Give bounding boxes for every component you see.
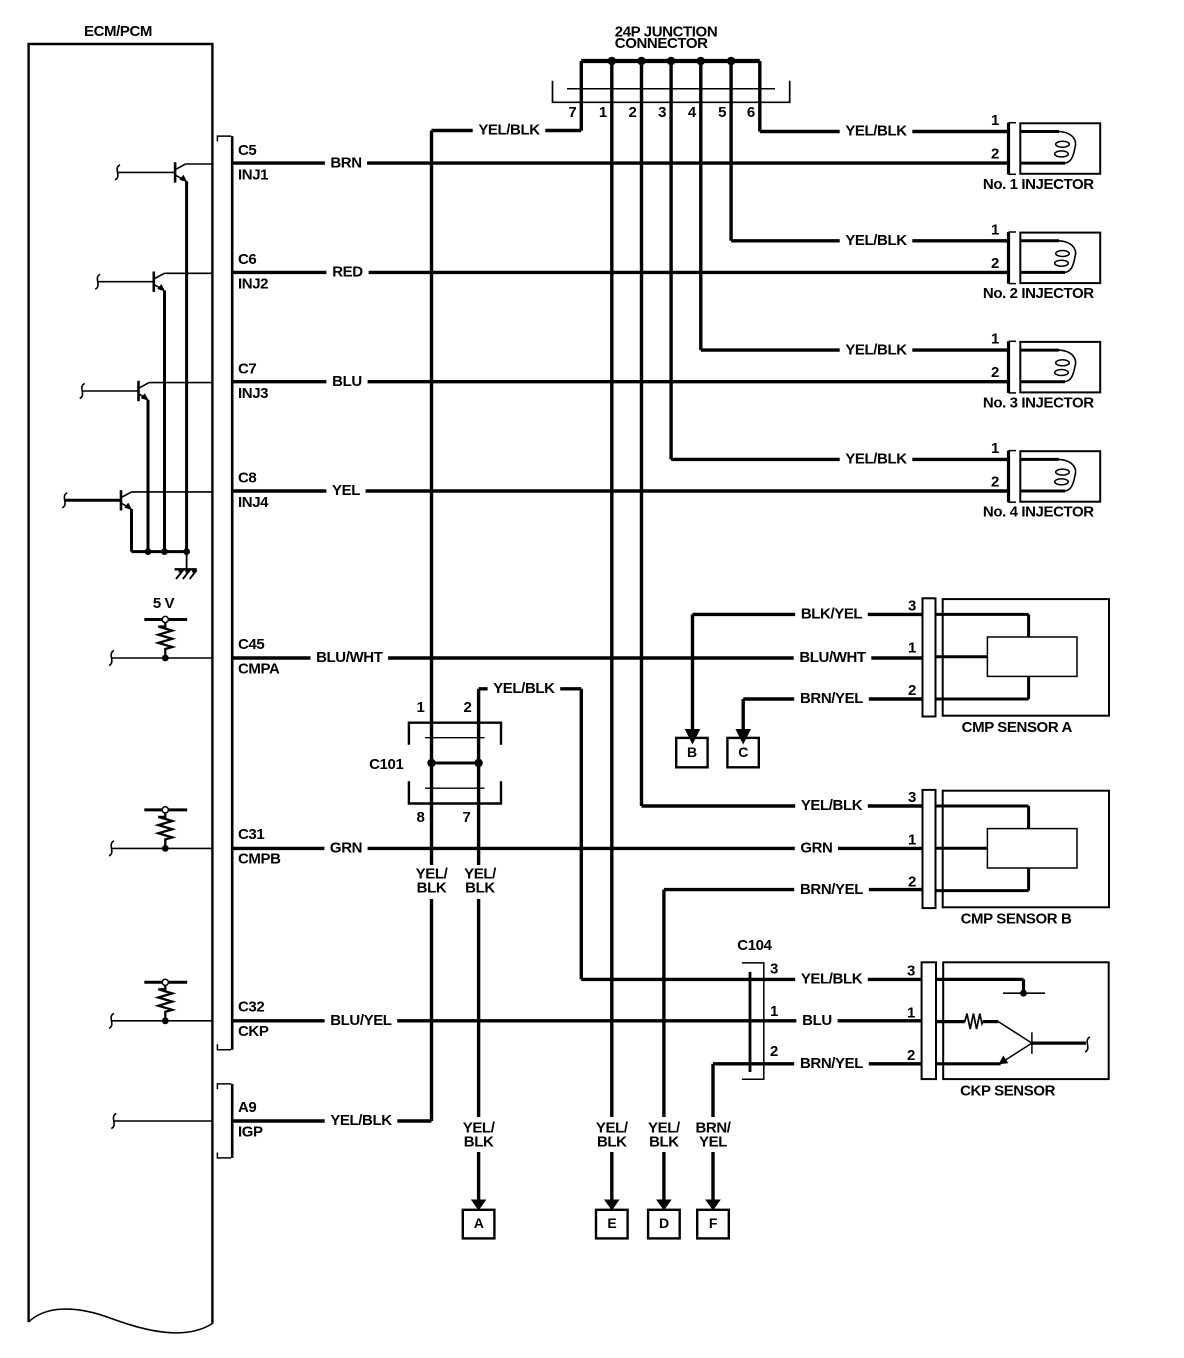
- svg-text:BRN: BRN: [330, 154, 361, 171]
- injector 2 body box: [1020, 233, 1100, 284]
- wire pin5 drop: [729, 61, 732, 241]
- 24P junction connector title: [615, 24, 717, 53]
- injector 1 connector bracket: [1009, 123, 1017, 175]
- svg-text:2: 2: [991, 146, 999, 163]
- wire BRN/YEL drop to connector C: [742, 699, 745, 730]
- 24P junction connector bus bar: [581, 59, 760, 63]
- svg-text:YEL: YEL: [332, 482, 360, 499]
- svg-text:5: 5: [718, 104, 726, 121]
- svg-text:2: 2: [464, 699, 472, 716]
- CKP sensor body box: [943, 962, 1108, 1079]
- wire BLU to injector 3 pin2: [231, 380, 1009, 383]
- connector C box: [727, 738, 758, 767]
- svg-text:1: 1: [908, 831, 916, 848]
- svg-text:3: 3: [770, 960, 778, 977]
- connector E box: [596, 1210, 628, 1239]
- wire pin3 drop: [669, 61, 672, 459]
- resistor pull-up R-CMPA 5V: [144, 595, 187, 661]
- svg-text:A: A: [474, 1215, 484, 1231]
- wire label above connector D: [644, 1119, 684, 1153]
- wire YEL/BLK pin2-drop to CMP sensor B pin3: [642, 804, 923, 807]
- svg-text:2: 2: [908, 682, 916, 699]
- svg-text:2: 2: [907, 1047, 915, 1064]
- svg-text:ECM/PCM: ECM/PCM: [84, 23, 152, 40]
- junction dot bus pin 4: [697, 57, 706, 66]
- junction dot bus/Q1: [183, 548, 190, 555]
- wire YEL/BLK vertical to C104 pin3: [580, 689, 583, 980]
- wire internal A9 with break tick: [111, 1114, 212, 1129]
- svg-text:IGP: IGP: [238, 1123, 263, 1140]
- wire C101 pin2/7 through-connector: [477, 723, 480, 804]
- connector D box: [648, 1210, 680, 1239]
- node C32/CKP pin labels: [238, 999, 269, 1041]
- junction dot bus/Q3: [145, 548, 152, 555]
- wire YEL/BLK vertical to C101 pin1: [430, 131, 433, 764]
- svg-text:CMP SENSOR A: CMP SENSOR A: [962, 719, 1073, 736]
- node C7/INJ3 pin labels: [238, 360, 268, 402]
- connector D arrow: [662, 1152, 665, 1201]
- wire internal C45 with break tick: [109, 651, 212, 666]
- svg-text:7: 7: [463, 809, 471, 826]
- CMP SENSOR B internal element: [936, 806, 1078, 891]
- svg-text:YEL/BLK: YEL/BLK: [801, 797, 863, 814]
- svg-text:C8: C8: [238, 470, 256, 487]
- svg-text:BLK/YEL: BLK/YEL: [801, 606, 863, 623]
- wire BRN/YEL to CMP sensor A pin2: [743, 697, 922, 700]
- svg-text:2: 2: [908, 874, 916, 891]
- transistor Q1 (INJ1 driver): [115, 162, 212, 182]
- wire pin6 drop: [758, 61, 761, 132]
- svg-text:2: 2: [991, 255, 999, 272]
- wire label above connector E: [592, 1119, 632, 1153]
- node C5/INJ1 pin labels: [238, 142, 268, 184]
- injector 2 pin numbers: [991, 221, 999, 272]
- junction dot bus pin 3: [667, 57, 676, 66]
- CMP SENSOR A pin numbers: [908, 597, 916, 699]
- wire YEL/BLK feed to injector 4: [671, 458, 1008, 461]
- injector 4 body box: [1020, 451, 1100, 502]
- svg-text:6: 6: [747, 104, 755, 121]
- node C31/CMPB pin labels: [238, 826, 281, 868]
- wire Q1 emitter to ground bus: [185, 181, 188, 551]
- svg-text:No. 3 INJECTOR: No. 3 INJECTOR: [983, 394, 1094, 411]
- ECM/PCM module box: [29, 23, 213, 1333]
- svg-text:1: 1: [991, 112, 999, 129]
- svg-text:7: 7: [568, 104, 576, 121]
- svg-text:8: 8: [417, 809, 425, 826]
- 24P junction connector body: [553, 81, 790, 103]
- svg-text:1: 1: [599, 104, 607, 121]
- svg-text:C45: C45: [238, 636, 264, 653]
- svg-text:No. 1 INJECTOR: No. 1 INJECTOR: [983, 176, 1094, 193]
- transistor Q4 (INJ4 driver): [62, 490, 212, 510]
- injector 1 coil: [1020, 132, 1075, 164]
- svg-text:CKP SENSOR: CKP SENSOR: [960, 1083, 1055, 1100]
- C101 internal link wire: [432, 762, 479, 765]
- svg-text:3: 3: [658, 104, 666, 121]
- svg-text:1: 1: [770, 1003, 778, 1020]
- svg-text:1: 1: [991, 221, 999, 238]
- wire BLU/YEL C32 to CKP sensor pin1: [231, 1019, 922, 1022]
- svg-text:YEL/BLK: YEL/BLK: [478, 122, 540, 139]
- ground symbol: [175, 552, 197, 579]
- svg-text:2: 2: [991, 474, 999, 491]
- transistor Q3 (INJ3 driver): [80, 381, 213, 401]
- svg-text:YEL/BLK: YEL/BLK: [801, 971, 863, 988]
- svg-text:BLK: BLK: [649, 1134, 679, 1151]
- wire BLK/YEL drop to connector B: [691, 614, 694, 730]
- junction dot bus pin 1: [608, 57, 617, 66]
- svg-text:YEL/BLK: YEL/BLK: [845, 451, 907, 468]
- wire Q2 emitter to ground bus: [163, 291, 166, 552]
- junction dot C101 pin1/8: [427, 759, 435, 767]
- svg-text:3: 3: [908, 597, 916, 614]
- svg-text:INJ2: INJ2: [238, 276, 268, 293]
- wire BLK/YEL to CMP sensor A pin3: [693, 613, 923, 616]
- connector C arrow: [735, 729, 751, 745]
- svg-text:C7: C7: [238, 360, 256, 377]
- connector A arrow: [477, 1152, 480, 1201]
- CKP sensor internal pickup: [936, 979, 1090, 1064]
- wire label above connector F: [692, 1119, 735, 1153]
- wire pin4 drop: [699, 61, 702, 350]
- svg-text:A9: A9: [238, 1099, 256, 1116]
- CMP SENSOR B connector bracket: [923, 790, 936, 908]
- connector E arrow: [610, 1152, 613, 1201]
- svg-text:CMPA: CMPA: [238, 660, 280, 677]
- svg-text:2: 2: [770, 1043, 778, 1060]
- junction dot bus/Q2: [161, 548, 168, 555]
- wire pin2 drop to CMP sensor B: [640, 61, 643, 806]
- svg-text:C: C: [738, 744, 748, 760]
- svg-text:1: 1: [991, 331, 999, 348]
- injector 3 connector bracket: [1009, 341, 1017, 393]
- connector B box: [676, 738, 707, 767]
- wire C101 pin8 down to A9 row: [430, 763, 433, 1121]
- wire BLU/WHT C45 to CMP sensor A pin1: [231, 656, 922, 659]
- injector 2 coil: [1020, 241, 1075, 273]
- wire YEL/BLK A9 IGP row: [231, 1119, 432, 1122]
- CMP SENSOR B pin numbers: [908, 789, 916, 891]
- wire Q4 emitter to ground bus: [130, 509, 133, 551]
- connector F arrow: [711, 1152, 714, 1201]
- resistor pull-up R-CMPB: [144, 807, 187, 852]
- wire BRN to injector 1 pin2: [231, 161, 1009, 164]
- svg-text:BLK: BLK: [417, 880, 447, 897]
- resistor pull-up R-CKP: [144, 979, 187, 1024]
- svg-text:BLU/WHT: BLU/WHT: [799, 649, 866, 666]
- svg-text:YEL/BLK: YEL/BLK: [330, 1112, 392, 1129]
- svg-text:BLU: BLU: [332, 373, 362, 390]
- wire YEL/BLK feed to injector 3: [701, 348, 1009, 351]
- wire BRN/YEL CMP sensor B pin2 to connector D: [664, 888, 922, 891]
- svg-text:1: 1: [908, 640, 916, 657]
- svg-text:INJ1: INJ1: [238, 166, 268, 183]
- svg-text:YEL/BLK: YEL/BLK: [845, 232, 907, 249]
- wire YEL/BLK C104 pin3 to CKP sensor pin3: [581, 978, 922, 981]
- svg-text:1: 1: [417, 699, 425, 716]
- CKP sensor pin numbers: [907, 962, 915, 1063]
- connector C101 body: [409, 723, 501, 804]
- ECM main connector strip: [217, 136, 232, 1050]
- svg-text:BLK: BLK: [465, 880, 495, 897]
- svg-text:No. 4 INJECTOR: No. 4 INJECTOR: [983, 504, 1094, 521]
- svg-text:D: D: [659, 1215, 669, 1231]
- ECM A9 connector strip: [217, 1084, 232, 1158]
- svg-text:YEL: YEL: [699, 1134, 727, 1151]
- svg-text:1: 1: [907, 1005, 915, 1022]
- wire label above connector A: [459, 1119, 499, 1153]
- CKP sensor connector bracket: [922, 962, 936, 1079]
- svg-text:4: 4: [688, 104, 697, 121]
- wire drop to connector F: [711, 1064, 714, 1117]
- CMP SENSOR B body box: [943, 791, 1109, 908]
- wire pin1 drop to connector E: [610, 61, 613, 1117]
- svg-text:B: B: [687, 744, 697, 760]
- svg-text:BRN/YEL: BRN/YEL: [800, 1055, 863, 1072]
- CMP SENSOR A internal element: [936, 614, 1078, 699]
- svg-text:E: E: [607, 1215, 616, 1231]
- connector A box: [463, 1210, 495, 1239]
- injector 3 pin numbers: [991, 331, 999, 382]
- svg-text:5 V: 5 V: [153, 595, 175, 612]
- svg-text:YEL/BLK: YEL/BLK: [845, 123, 907, 140]
- svg-text:No. 2 INJECTOR: No. 2 INJECTOR: [983, 285, 1094, 302]
- wire YEL/BLK feed to injector 1: [760, 130, 1009, 133]
- svg-text:CONNECTOR: CONNECTOR: [615, 35, 708, 52]
- junction dot bus pin 5: [727, 57, 736, 66]
- svg-text:BLU/WHT: BLU/WHT: [316, 649, 383, 666]
- svg-text:CMPB: CMPB: [238, 851, 281, 868]
- CMP SENSOR A body box: [943, 599, 1109, 716]
- connector C104 body: [742, 963, 764, 1079]
- svg-text:3: 3: [908, 789, 916, 806]
- injector 3 coil: [1020, 350, 1075, 382]
- svg-text:GRN: GRN: [800, 840, 832, 857]
- svg-text:C32: C32: [238, 999, 264, 1016]
- junction dot C101 pin2/7: [474, 759, 482, 767]
- svg-text:GRN: GRN: [330, 840, 362, 857]
- wire internal C32 with break tick: [109, 1013, 212, 1028]
- svg-text:INJ4: INJ4: [238, 494, 269, 511]
- svg-text:BRN/YEL: BRN/YEL: [800, 881, 863, 898]
- node C6/INJ2 pin labels: [238, 251, 268, 293]
- svg-text:RED: RED: [332, 264, 363, 281]
- svg-text:2: 2: [629, 104, 637, 121]
- wire RED to injector 2 pin2: [231, 271, 1009, 274]
- junction dot bus pin 2: [637, 57, 646, 66]
- wire C101 pin7 down to connector A: [477, 804, 480, 1118]
- svg-text:BLK: BLK: [597, 1134, 627, 1151]
- svg-text:BLU: BLU: [802, 1012, 832, 1029]
- wire Q3 emitter to ground bus: [147, 400, 150, 552]
- svg-text:C31: C31: [238, 826, 264, 843]
- svg-text:C6: C6: [238, 251, 256, 268]
- svg-text:YEL/BLK: YEL/BLK: [493, 680, 555, 697]
- svg-text:BLU/YEL: BLU/YEL: [330, 1012, 392, 1029]
- node C8/INJ4 pin labels: [238, 470, 269, 512]
- wire GRN C31 to CMP sensor B pin1: [231, 847, 922, 850]
- svg-text:BLK: BLK: [464, 1134, 494, 1151]
- transistor Q2 (INJ2 driver): [95, 272, 212, 292]
- svg-text:BRN/YEL: BRN/YEL: [800, 690, 863, 707]
- connector F box: [697, 1210, 729, 1239]
- wire YEL/BLK C101 pin2 horizontal: [479, 687, 582, 690]
- injector 1 body box: [1020, 123, 1100, 174]
- svg-text:F: F: [709, 1215, 718, 1231]
- wire drop to connector D: [662, 890, 665, 1117]
- svg-text:2: 2: [991, 364, 999, 381]
- wire BRN/YEL C104 pin2 to CKP sensor pin2: [713, 1062, 922, 1065]
- injector 2 connector bracket: [1009, 232, 1017, 284]
- svg-text:C101: C101: [369, 756, 403, 773]
- svg-text:1: 1: [991, 440, 999, 457]
- CMP SENSOR A connector bracket: [923, 598, 936, 716]
- svg-text:INJ3: INJ3: [238, 385, 268, 402]
- wire emitter ground bus: [132, 550, 187, 553]
- node C45/CMPA pin labels: [238, 636, 280, 678]
- injector 4 connector bracket: [1009, 451, 1017, 503]
- svg-text:YEL/BLK: YEL/BLK: [845, 341, 907, 358]
- injector 4 coil: [1020, 459, 1075, 491]
- wire YEL/BLK C101 pin2 riser: [477, 689, 480, 723]
- wire internal C31 with break tick: [109, 841, 212, 856]
- node A9/IGP pin labels: [238, 1099, 263, 1141]
- svg-text:3: 3: [907, 962, 915, 979]
- svg-text:C104: C104: [737, 937, 772, 954]
- wire YEL/BLK feed to injector 2: [731, 239, 1008, 242]
- connector B arrow: [685, 729, 701, 745]
- svg-text:CKP: CKP: [238, 1023, 269, 1040]
- wire YEL to injector 4 pin2: [231, 489, 1009, 492]
- svg-text:C5: C5: [238, 142, 256, 159]
- svg-text:CMP SENSOR B: CMP SENSOR B: [961, 911, 1072, 928]
- injector 4 pin numbers: [991, 440, 999, 491]
- injector 1 pin numbers: [991, 112, 999, 163]
- wire pin7 to C101 YEL/BLK horizontal: [432, 129, 582, 132]
- injector 3 body box: [1020, 342, 1100, 393]
- wire pin7 drop: [580, 61, 583, 131]
